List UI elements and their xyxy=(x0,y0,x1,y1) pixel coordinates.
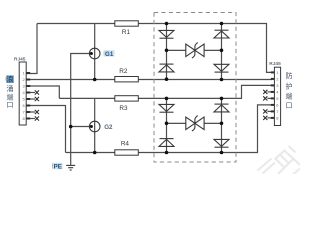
svg-text:PE: PE xyxy=(54,163,62,170)
no-connect X left pin7 xyxy=(35,110,39,114)
resistor R4 xyxy=(115,150,139,155)
TVS V1 top cell xyxy=(167,43,222,58)
wire: left pin4 stub to X xyxy=(26,92,35,94)
svg-text:口: 口 xyxy=(7,101,14,109)
wire: right pin5 X stub xyxy=(268,97,273,99)
no-connect X left pin8 xyxy=(35,116,39,120)
diode D5 bottom-cell upper-left (points down) xyxy=(159,104,174,112)
no-connect X right pin5 xyxy=(263,96,267,100)
ground PE symbol xyxy=(66,165,75,170)
gas discharge tube G2 xyxy=(89,121,100,132)
no-connect X right pin4 xyxy=(263,90,267,94)
svg-text:浪: 浪 xyxy=(7,75,14,84)
wire: G1 top lead xyxy=(94,24,96,80)
wire: R1 top rail right segment to right pin1 xyxy=(138,24,272,73)
connector J1 left RJ45 body xyxy=(19,62,26,125)
diode D2 top-cell lower-left (points up) xyxy=(159,64,174,72)
resistor R1 xyxy=(115,21,139,26)
svg-text:R3: R3 xyxy=(119,105,128,112)
junction node dots xyxy=(69,22,223,155)
dashed protection-module box xyxy=(154,13,236,163)
gas discharge tube G1 xyxy=(89,48,100,59)
diode D8 bottom-cell lower-right (points down) xyxy=(214,139,229,147)
wire: top-cell right diode branch xyxy=(221,24,223,80)
TVS V2 bottom cell xyxy=(167,116,222,131)
svg-text:G1: G1 xyxy=(105,51,114,58)
connector J1 pin stubs xyxy=(26,72,30,120)
wire: R2 rail right segment to right pin2 xyxy=(138,79,272,81)
wire: R4 rail left segment xyxy=(66,152,115,154)
wire: G1 left wire and PE bus xyxy=(71,54,90,165)
wire: right pin8 X stub xyxy=(268,117,273,119)
wire: R3 rail left segment xyxy=(59,97,115,99)
wire: left pin6 step down to R4 rail xyxy=(26,106,65,153)
no-connect X right pin7 xyxy=(263,109,267,113)
resistor R3 xyxy=(115,96,139,101)
wire: left pin3 step down to R3 rail xyxy=(26,86,59,98)
svg-text:护: 护 xyxy=(286,81,293,90)
diode D6 bottom-cell lower-left (points up) xyxy=(159,139,174,147)
svg-text:端: 端 xyxy=(286,92,293,101)
wire: left pin8 stub to X xyxy=(26,118,35,120)
label surge port (left, vertical) xyxy=(6,75,14,83)
wire: bottom-cell left diode branch xyxy=(166,98,168,152)
svg-text:RJ45: RJ45 xyxy=(269,61,281,67)
wire: left pin1 to top rail riser xyxy=(26,24,37,74)
wire: R3 rail right segment rising to right pin3 xyxy=(138,85,272,98)
wire: right pin4 X stub xyxy=(268,91,273,93)
no-connect X left pin5 xyxy=(35,97,39,101)
svg-text:涌: 涌 xyxy=(7,84,14,93)
wire: G2 left wire xyxy=(71,126,90,128)
svg-text:RJ45: RJ45 xyxy=(14,56,26,62)
wire: right pin7 X stub xyxy=(268,110,273,112)
svg-text:R2: R2 xyxy=(119,68,128,75)
no-connect X right pin8 xyxy=(263,116,267,120)
pin numbers left connector xyxy=(22,71,25,122)
svg-text:R4: R4 xyxy=(121,140,130,147)
wire: R1 top rail left segment xyxy=(37,23,115,25)
connector J2 pin stubs xyxy=(271,71,275,119)
label PE (highlighted) xyxy=(52,163,62,169)
wire: R2 rail left segment xyxy=(26,79,115,81)
diode D4 top-cell lower-right (points down) xyxy=(214,64,229,72)
wire: top-cell left diode branch xyxy=(166,24,168,80)
pin numbers right connector xyxy=(276,70,279,121)
wire: left pin5 stub to X xyxy=(26,98,35,100)
svg-text:R1: R1 xyxy=(122,29,131,36)
svg-text:防: 防 xyxy=(286,71,293,80)
diode D1 top-cell upper-left (points down) xyxy=(159,30,174,38)
wire: R4 rail right segment rising to right pin6 xyxy=(138,105,272,153)
wire: left pin7 stub to X xyxy=(26,111,35,113)
wire: bottom-cell right diode branch xyxy=(221,98,223,152)
svg-text:端: 端 xyxy=(7,92,14,101)
no-connect X left pin4 xyxy=(35,90,268,121)
resistor R2 xyxy=(115,77,139,82)
svg-text:口: 口 xyxy=(286,102,293,110)
label G1 (highlighted) xyxy=(104,50,115,56)
svg-text:G2: G2 xyxy=(104,124,113,131)
watermark xyxy=(258,146,301,175)
diode D3 top-cell upper-right (points up) xyxy=(214,30,229,38)
wire: G2 top lead xyxy=(94,98,96,152)
label protected port (right, vertical) xyxy=(286,71,293,110)
connector J2 right RJ45 body xyxy=(274,67,280,125)
diode D7 bottom-cell upper-right (points up) xyxy=(214,104,229,112)
